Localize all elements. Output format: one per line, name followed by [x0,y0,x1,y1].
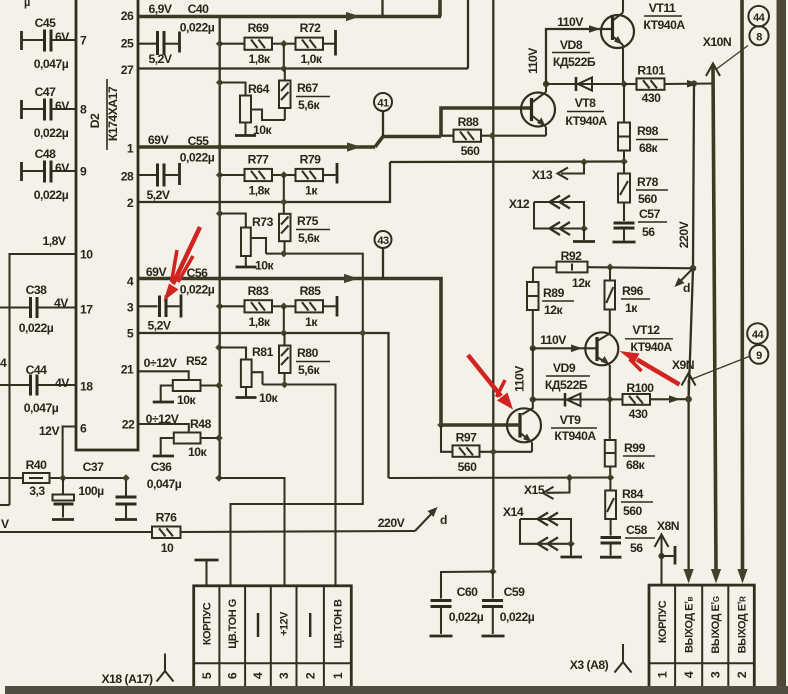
resistor R89 [527,282,574,348]
node junction (441,425) [437,421,445,429]
svg-text:VD8: VD8 [560,38,583,52]
pin 10 [80,248,93,262]
svg-text:10к: 10к [177,393,197,407]
svg-text:21: 21 [121,363,134,377]
svg-text:69V: 69V [148,133,170,147]
svg-text:5,2V: 5,2V [148,52,172,66]
resistor R99 [605,399,655,477]
X3 pin 2 VYHOD E'R [735,596,749,678]
wire pin5 row [139,333,389,478]
svg-text:ВЫХОД ЕʼG: ВЫХОД ЕʼG [710,596,722,653]
pin 17 [80,303,93,317]
svg-text:R77: R77 [248,153,270,167]
resistor R96 [605,267,651,333]
svg-text:9: 9 [756,350,762,362]
resistor R80 [279,333,330,385]
svg-text:0,022µ: 0,022µ [449,610,484,624]
svg-text:6V: 6V [55,30,70,44]
svg-text:4: 4 [251,672,265,679]
svg-text:1к: 1к [625,301,638,315]
svg-text:560: 560 [461,144,481,158]
node junction (219,478) [215,474,223,482]
wire vertical bus x=219.7 [219,17,221,479]
svg-text:5,6к: 5,6к [298,98,320,112]
svg-text:X3 (A8): X3 (A8) [570,658,609,672]
svg-text:R84: R84 [622,487,644,501]
svg-text:2: 2 [127,196,134,210]
scan bar bottom edge [5,686,788,694]
pin 5 [127,327,134,341]
svg-text:КД522Б: КД522Б [545,378,588,392]
svg-text:430: 430 [629,407,649,421]
node junction (219.7,175) [216,171,224,179]
svg-text:КТ940А: КТ940А [630,340,672,354]
svg-text:17: 17 [80,303,93,317]
svg-text:R48: R48 [190,417,212,431]
pin 2 [127,196,134,210]
svg-text:R73: R73 [252,215,274,229]
svg-text:X13: X13 [532,168,553,182]
connector X8N [655,519,680,586]
red annotation stroke at VT9 (second) [497,380,506,397]
wire row y=253.6 [231,254,363,586]
stray text fragments [0,0,30,531]
svg-text:43: 43 [377,235,389,247]
node junction (610.4,477.5) [607,474,615,482]
svg-text:X12: X12 [509,197,530,211]
svg-text:0,047µ: 0,047µ [147,477,182,491]
red annotation stroke at C56 (right) [178,256,193,282]
svg-text:6,9V: 6,9V [148,2,172,16]
svg-text:10: 10 [161,541,174,555]
svg-text:4: 4 [127,275,134,289]
resistor R69 [220,21,284,66]
svg-text:430: 430 [642,91,662,105]
svg-text:69V: 69V [146,265,168,279]
transistor VT8 [521,84,607,136]
capacitor C56 [139,295,181,333]
svg-text:10к: 10к [259,391,279,405]
svg-text:R75: R75 [297,214,319,228]
svg-text:R85: R85 [300,284,322,298]
svg-text:X14: X14 [503,505,524,519]
node 43 [375,231,392,279]
svg-text:КОРПУС: КОРПУС [657,600,669,643]
svg-text:0,022µ: 0,022µ [34,188,69,202]
X18 pin 1 CV.TON V [331,599,345,679]
svg-text:28: 28 [121,170,134,184]
svg-text:R79: R79 [300,153,322,167]
connector X13 [532,158,588,182]
wire pin1 row [139,133,441,165]
diode VD8 [546,38,624,91]
capacitor C40 [139,21,215,67]
svg-text:1,8к: 1,8к [248,315,270,329]
svg-text:27: 27 [121,63,134,77]
node junction (126,478) [122,474,130,482]
X18 pin 5 KORPUS [200,602,214,679]
svg-text:10к: 10к [188,445,208,459]
svg-text:C47: C47 [35,85,57,99]
node junction (624,161.5) [620,158,628,166]
wire 110V to VT12 base [513,333,598,392]
transistor VT11 [601,0,685,84]
connector X14 [503,505,582,557]
svg-text:44: 44 [752,329,765,341]
svg-text:1,8к: 1,8к [248,184,270,198]
svg-text:5: 5 [200,672,214,679]
red annotation arrow at C56 (long) [164,227,201,301]
resistor R75 [279,214,330,254]
svg-text:R81: R81 [252,345,274,359]
svg-text:d: d [683,281,690,295]
svg-text:R67: R67 [297,81,319,95]
svg-text:R92: R92 [561,249,583,263]
svg-text:R40: R40 [26,458,48,472]
svg-text:560: 560 [458,460,478,474]
svg-text:2: 2 [304,672,318,679]
svg-text:C60: C60 [457,585,479,599]
resistor R92 [533,249,694,290]
svg-text:22: 22 [122,418,135,432]
connector X9N [672,323,768,385]
resistor R40 [0,458,126,498]
svg-text:6: 6 [80,422,87,436]
wire pin27 row [139,0,468,69]
svg-text:6V: 6V [55,99,70,113]
svg-text:R96: R96 [622,284,644,298]
node junction (218.5,347.5) [215,344,223,352]
svg-text:D2: D2 [88,113,102,128]
wire row y=384.5 to X18 pin1 [263,385,336,586]
svg-text:C37: C37 [83,460,105,474]
node junction (218.5,385.5) [215,382,223,390]
svg-text:ЦВ.ТОН В: ЦВ.ТОН В [333,599,345,649]
resistor R100 [610,381,688,421]
svg-text:X9N: X9N [672,358,694,372]
node junction (362.8,333) [359,329,367,337]
svg-text:110V: 110V [526,47,540,74]
connector X10N [703,6,769,76]
svg-text:56: 56 [642,225,655,239]
resistor R88 [441,115,546,158]
resistor R85 [284,284,337,329]
svg-text:110V: 110V [557,15,584,29]
svg-text:C40: C40 [188,2,210,16]
X3 pin 3 VYHOD E'G [709,596,723,678]
svg-text:560: 560 [623,504,643,518]
svg-text:R83: R83 [248,284,270,298]
pin 22 [122,418,135,432]
capacitor C55 [139,163,180,202]
svg-text:R64: R64 [248,82,270,96]
svg-text:R88: R88 [458,115,480,129]
label X3 (A8) [570,644,632,673]
svg-text:4V: 4V [54,296,69,310]
node junction (284.5,384.5) [281,381,289,389]
wire 110V to VT11 base [526,15,612,84]
X18 pin 2 dash [304,613,318,679]
wire vertical B x=714 [711,66,721,584]
connector X3 body [649,585,754,688]
svg-text:10к: 10к [253,123,273,137]
svg-text:1к: 1к [305,184,318,198]
svg-text:1,8V: 1,8V [42,234,66,248]
svg-text:26: 26 [121,9,134,23]
svg-text:КД522Б: КД522Б [553,55,596,69]
svg-text:R98: R98 [637,124,659,138]
svg-text:КОРПУС: КОРПУС [202,602,214,645]
svg-text:560: 560 [638,192,658,206]
IC D2 label [88,79,120,150]
svg-text:8: 8 [756,32,762,44]
svg-text:1,8к: 1,8к [248,52,270,66]
svg-text:220V: 220V [677,220,691,248]
node junction (219.7,43.7) [216,40,224,48]
svg-text:1,0к: 1,0к [300,52,322,66]
svg-text:0,022µ: 0,022µ [180,21,215,35]
node 220V d-arrow (left) [378,507,447,531]
svg-text:R69: R69 [248,21,270,35]
svg-text:220V: 220V [378,516,406,530]
capacitor C57 [613,207,668,242]
svg-text:0,022µ: 0,022µ [34,126,69,140]
diode VD9 [533,361,610,407]
svg-text:X8N: X8N [657,519,679,533]
pin 27 [121,63,134,77]
wire vertical x=493.7 [492,0,494,572]
svg-text:R72: R72 [300,21,322,35]
svg-text:100µ: 100µ [78,484,104,498]
resistor R48 [139,412,219,459]
svg-text:C38: C38 [26,283,48,297]
svg-text:ЦВ.ТОН G: ЦВ.ТОН G [227,599,239,649]
svg-text:110V: 110V [540,333,567,347]
pin 3 [127,301,134,315]
X3 pin 1 KORPUS [656,600,670,678]
svg-text:КТ940А: КТ940А [643,18,685,32]
svg-text:0,047µ: 0,047µ [34,57,69,71]
node junction (532,348.3) [530,345,536,351]
resistor R78 [618,162,668,222]
label X18 (A17) [101,654,173,687]
node junction (219.7,82.5) [216,79,224,87]
connector X18 body [194,586,352,689]
node junction (219.7,213.5) [216,210,224,218]
node 41 [374,93,392,137]
node 12V label [39,424,61,438]
svg-text:56: 56 [630,541,643,555]
svg-text:68к: 68к [626,458,646,472]
wire +12V column to X18 pin3 [219,478,285,586]
svg-text:1: 1 [127,142,134,156]
pin 28 [121,170,134,184]
capacitor C60 [430,572,493,637]
svg-text:5,6к: 5,6к [298,231,320,245]
ground above X18 pin5 [195,560,219,586]
capacitor C59 [482,572,535,637]
node junction (492,135.7) [489,132,497,140]
pin 1 [127,142,134,156]
svg-text:КТ940А: КТ940А [565,114,607,128]
X18 pin 6 CV.TON G [226,599,240,679]
svg-text:ВЫХОД ЕʼR: ВЫХОД ЕʼR [736,596,748,653]
wire VT9 collector column [522,348,533,414]
capacitor C47 [22,85,78,140]
resistor R64 [220,82,285,137]
svg-text:110V: 110V [513,365,527,392]
svg-text:К174ХА17: К174ХА17 [106,86,120,141]
svg-text:R80: R80 [297,346,319,360]
node junction (219.7,147) [216,143,224,151]
svg-text:41: 41 [377,98,389,110]
capacitor C38 [0,283,77,335]
node junction (283.8,202) [280,198,288,206]
svg-text:VT11: VT11 [649,1,676,15]
node junction (693,268.3) [690,265,697,272]
node junction (283.8,333) [280,329,288,337]
wire pin6 [63,427,77,479]
red annotation stroke at VT12 (second) [630,359,642,371]
svg-text:7: 7 [80,34,87,48]
svg-text:5,2V: 5,2V [147,319,171,333]
svg-text:4V: 4V [55,376,70,390]
node junction (63,478) [59,474,67,482]
node junction (624,84) [620,80,628,88]
svg-text:3: 3 [127,301,134,315]
node junction (694,83.5) [691,80,697,86]
svg-text:1: 1 [656,671,670,678]
pin 26 [121,9,134,23]
svg-text:R89: R89 [543,286,565,300]
X3 pin 4 VYHOD E'v [682,596,696,678]
wire pin4 row [139,265,441,425]
capacitor C36 [115,460,182,520]
capacitor C44 [0,363,77,415]
svg-text:C36: C36 [151,460,173,474]
wire vertical C x=742 [737,0,747,584]
svg-text:R99: R99 [624,441,646,455]
node junction (283.8,253.6) [280,250,288,258]
pin 21 [121,363,134,377]
resistor R101 [624,64,713,106]
svg-text:3: 3 [709,671,723,678]
node junction (492.5,571.5) [489,568,497,576]
pin 7 [80,34,87,48]
svg-text:9: 9 [80,165,87,179]
svg-text:1: 1 [331,672,345,679]
resistor R67 [279,69,330,121]
svg-text:C59: C59 [504,585,526,599]
wire pin2 row [139,162,390,202]
resistor R97 [441,425,532,474]
resistor R72 [284,21,336,66]
resistor R79 [284,153,337,198]
red annotation stroke at C56 (middle) [172,250,178,282]
red annotation arrow at VT9 [468,355,513,410]
svg-text:3: 3 [277,672,291,679]
svg-text:6: 6 [226,672,240,679]
red annotation arrow at VT12 [620,351,680,385]
svg-text:0,047µ: 0,047µ [24,401,59,415]
svg-text:12к: 12к [544,303,564,317]
svg-text:6V: 6V [55,161,70,175]
svg-text:VT12: VT12 [632,323,660,337]
resistor R73 [220,214,275,273]
pin 25 [121,37,134,51]
svg-text:C58: C58 [626,523,648,537]
svg-text:12V: 12V [39,424,61,438]
svg-text:X18 (A17): X18 (A17) [101,672,152,686]
svg-text:5,6к: 5,6к [298,363,320,377]
svg-text:8: 8 [80,103,87,117]
IC D2 K174XA17 body [76,0,138,450]
node junction R69-R72 [280,40,288,69]
node 1,8V label [42,234,66,248]
resistor R77 [220,153,284,198]
svg-text:R76: R76 [156,511,178,525]
wire X13 row [390,160,624,163]
node junction (609.8,399.3) [606,396,614,404]
node junction R83-R85 [280,303,288,334]
resistor R52 [139,354,219,407]
svg-text:R52: R52 [186,354,208,368]
svg-text:0÷12V: 0÷12V [146,412,180,426]
svg-text:0,022µ: 0,022µ [180,151,215,165]
pin 4 [127,275,134,289]
node junction (610,267.2) [606,263,614,271]
node junction (218.5,438) [215,434,223,442]
svg-text:R101: R101 [637,64,665,78]
svg-text:VD9: VD9 [553,361,576,375]
svg-text:C45: C45 [35,16,57,30]
svg-text:C48: C48 [35,147,57,161]
pin 8 [80,103,87,117]
capacitor C37 [52,460,104,520]
svg-text:d: d [440,513,447,527]
svg-text:+12V: +12V [279,611,291,636]
svg-text:12к: 12к [572,276,592,290]
svg-text:4: 4 [682,671,696,678]
wire pin26 row [139,0,441,21]
svg-text:КТ940А: КТ940А [554,429,596,443]
svg-text:µ: µ [24,0,30,9]
svg-text:R78: R78 [637,175,659,189]
svg-text:0÷12V: 0÷12V [144,356,178,370]
node junction R77-R79 [280,171,288,214]
svg-text:1к: 1к [305,315,318,329]
svg-text:3,3: 3,3 [29,484,45,498]
scan bar right edge [777,0,787,688]
svg-text:X10N: X10N [703,35,732,49]
svg-text:C44: C44 [26,363,48,377]
svg-text:10: 10 [80,248,93,262]
resistor R98 [618,84,668,162]
pin 18 [80,380,93,394]
svg-text:R97: R97 [456,431,478,445]
resistor R81 [219,345,279,405]
node junction (283.8,68.5) [280,65,288,73]
svg-text:10к: 10к [255,259,275,273]
svg-text:0,022µ: 0,022µ [19,321,54,335]
svg-text:C56: C56 [187,266,209,280]
svg-text:2: 2 [735,671,749,678]
wire VT8 base row [441,108,532,137]
node junction (546,84) [543,81,549,87]
svg-text:VT9: VT9 [560,413,582,427]
resistor R76 [0,511,415,556]
pin 9 [80,165,87,179]
